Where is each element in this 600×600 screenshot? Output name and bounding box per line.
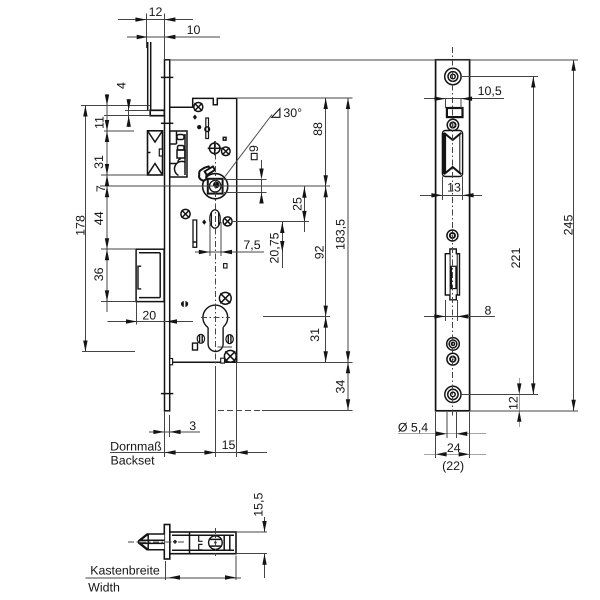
dim 10.5 line y98.7 — [424, 98, 504, 100]
svg-text:7: 7 — [94, 185, 108, 192]
svg-text:88: 88 — [311, 122, 325, 136]
svg-text:178: 178 — [73, 215, 87, 236]
svg-text:34: 34 — [333, 380, 347, 394]
small diamond — [193, 115, 197, 120]
svg-text:4: 4 — [114, 82, 128, 89]
strip foot plate — [150, 110, 164, 115]
deadbolt slot — [445, 249, 459, 300]
cylinder axis row y316.6 — [263, 316, 330, 318]
svg-text:183,5: 183,5 — [333, 219, 347, 250]
faceplate tick marks — [161, 76, 173, 78]
small open rect below-left — [193, 343, 198, 350]
extension line x146.4 — [145, 14, 147, 49]
centerline main vertical axis — [214, 141, 216, 366]
dim 3 line y431.9 — [149, 431, 200, 433]
svg-text:11: 11 — [92, 116, 106, 129]
dornmass dim line y452.5 — [110, 452, 267, 454]
svg-text:20,75: 20,75 — [267, 232, 281, 263]
left chain line x128.7 (4) — [128, 99, 130, 127]
screw bottom right (diag cross) — [224, 350, 236, 362]
arrows chain x325.7 — [324, 98, 328, 109]
screw right of oval (diag cross) — [223, 217, 232, 226]
screw mid (dark ring) — [447, 230, 458, 241]
svg-text:36: 36 — [92, 267, 106, 281]
svg-text:31: 31 — [308, 328, 322, 342]
roller (front view) — [442, 131, 462, 177]
row y110.3 — [125, 109, 150, 111]
roller bracket plate — [447, 108, 463, 117]
left chain line x85.4 (178) — [84, 106, 86, 352]
arrows 178 — [83, 106, 87, 117]
clip brackets — [199, 535, 203, 541]
latch head side view — [139, 534, 165, 550]
arrows dim 7.5 — [199, 250, 210, 254]
case right edge — [236, 98, 238, 362]
dim 8 y316.4 — [424, 315, 495, 317]
svg-text:3: 3 — [189, 419, 196, 433]
sq9 ext rows — [224, 179, 267, 181]
deadbolt front pin — [138, 266, 141, 289]
arrows dia5.4 — [436, 432, 447, 436]
arrows dim 24 — [436, 452, 447, 456]
svg-text:10: 10 — [187, 23, 201, 37]
keyway bottom tick y346.9 — [218, 346, 233, 348]
follower cam blade — [205, 166, 215, 175]
screw hole top (3 circles) — [445, 68, 461, 84]
case top ext row y98 — [237, 97, 353, 99]
divider — [189, 532, 191, 554]
arrows dim 4 — [127, 99, 131, 110]
diamond left of oval — [202, 220, 206, 225]
arrows sq9 — [259, 169, 263, 180]
row y249.2 bolt top ext — [101, 248, 136, 250]
follower nut — [209, 536, 223, 550]
arrows dim 10 — [137, 35, 148, 39]
euro profile cylinder hole — [203, 305, 228, 330]
nut with slot left — [181, 301, 188, 307]
dim 12 right x519.25 — [518, 378, 520, 427]
svg-text:30°: 30° — [283, 106, 302, 120]
arrows dim 8 — [434, 314, 445, 318]
extension line x164.4 above faceplate — [163, 14, 165, 60]
svg-text:9: 9 — [247, 145, 261, 152]
arrows dim 3 — [153, 430, 164, 434]
svg-text:15: 15 — [222, 438, 236, 452]
svg-text:15,5: 15,5 — [252, 493, 266, 517]
screw above cylinder (diag cross) — [219, 292, 231, 304]
row y301 bolt bottom ext — [101, 300, 136, 302]
dim 15.5 line x264.5 — [264, 517, 266, 532]
cylinder screw hole left (hatched oval) — [197, 334, 204, 343]
latch mechanism behind faceplate — [170, 131, 187, 177]
arrows dim 245 — [571, 60, 575, 71]
row y115.7 — [104, 115, 150, 117]
svg-text:Width: Width — [88, 581, 120, 595]
svg-text:20: 20 — [142, 308, 156, 322]
row y351.5 — [82, 351, 135, 353]
latch mid tick — [148, 152, 151, 154]
arrows dim 12 — [135, 17, 146, 21]
svg-text:Backset: Backset — [110, 454, 155, 468]
svg-text:92: 92 — [312, 245, 326, 259]
screw (3 circles) below slot — [447, 338, 460, 351]
upper strip (latch tail, edge view) — [147, 42, 149, 110]
faceplate outline — [436, 60, 470, 411]
centerline bottom view latch — [128, 541, 184, 543]
arrows kastenbreite — [169, 575, 180, 579]
svg-text:8: 8 — [485, 303, 492, 317]
case bottom edge — [171, 361, 237, 363]
roller latch head box — [148, 131, 163, 175]
right view screw rows — [461, 76, 538, 78]
dim 245 x573.6 — [573, 60, 575, 411]
arrows dim 221 — [531, 77, 535, 88]
arrows dornmass row — [165, 450, 176, 454]
leader 30deg — [225, 115, 272, 177]
ext x136.5 below bolt — [136, 302, 138, 325]
slot bar left — [193, 220, 197, 247]
dim line 20 — [107, 321, 193, 323]
row y131 latch top ext — [104, 130, 134, 132]
row y105.5 — [81, 105, 150, 107]
faceplate (main view, edge-on) — [165, 60, 170, 411]
svg-text:(22): (22) — [442, 459, 464, 473]
diamond marker — [173, 540, 177, 544]
screw (diag cross) right of phillips — [222, 147, 231, 156]
follower pupil — [213, 182, 220, 189]
screw top-left (diag cross) — [194, 103, 203, 112]
7.5 ext lines — [209, 222, 211, 256]
centerline right view — [452, 47, 454, 418]
arrows dim 25 — [302, 187, 306, 198]
deadbolt head — [136, 249, 164, 301]
cylinder screw hole right (hatched oval) — [226, 335, 233, 344]
svg-text:245: 245 — [561, 215, 575, 236]
arrows dim 15.5 bottom — [262, 521, 266, 532]
bottom view 15.5 ext rows — [236, 531, 267, 533]
svg-text:25: 25 — [291, 197, 305, 211]
svg-text:44: 44 — [92, 211, 106, 225]
svg-text:12: 12 — [149, 5, 163, 19]
svg-text:12: 12 — [506, 396, 520, 410]
arrows dim 13 — [431, 193, 442, 197]
svg-text:24: 24 — [447, 441, 461, 455]
follower square — [208, 179, 223, 194]
sq9 dim line x261.5 — [261, 160, 263, 169]
svg-text:Kastenbreite: Kastenbreite — [90, 564, 160, 578]
oval fixing hole — [210, 210, 220, 228]
dim 13 y195.3 — [420, 194, 482, 196]
follower outer circle — [203, 174, 228, 199]
svg-text:10,5: 10,5 — [478, 84, 502, 98]
tiny open square bottom — [221, 358, 225, 363]
phillips screw (plus cross) — [208, 141, 222, 155]
top row y59.8 across — [170, 59, 578, 61]
right chain line x325.7 (88/92/31) — [325, 98, 327, 362]
screw hole bottom (3 circles) — [445, 386, 461, 402]
dim 7.5 line y252 — [195, 251, 264, 253]
latch pin right mid — [159, 149, 162, 156]
arrows dim 20 — [126, 319, 137, 323]
small filled square — [223, 137, 227, 141]
arrows dim 10.5 — [435, 97, 446, 101]
left chain line x107 — [106, 94, 108, 312]
kastenbreite dim line y577.5 — [86, 577, 241, 579]
svg-text:Ø 5,4: Ø 5,4 — [398, 420, 428, 434]
dim 221 x533.3 — [532, 77, 534, 395]
dim 24 y454.25 — [424, 453, 486, 455]
arrows chain x348 — [346, 98, 350, 109]
dia 5.4 dim y433.75 — [398, 433, 486, 435]
angle symbol — [272, 109, 280, 118]
case bottom ext row y362.3 — [237, 361, 353, 363]
follower cam body — [199, 166, 211, 180]
roller latch bottom chevron — [148, 164, 162, 175]
svg-text:13: 13 — [447, 181, 461, 195]
svg-text:7,5: 7,5 — [243, 238, 260, 252]
ext below faceplate x164.7 — [164, 411, 166, 457]
tiny square mid — [224, 264, 227, 268]
row y186.2 follower axis — [100, 185, 330, 187]
case bottom left tab — [170, 359, 173, 365]
right chain line x348 (183.5/34) — [347, 98, 349, 410]
fixing screw row y221.5 — [232, 221, 309, 223]
case right edge ext below x236.7 — [236, 362, 238, 457]
screw left of oval (diag cross) — [181, 209, 190, 218]
centerline bottom view nut — [214, 528, 216, 556]
dim 20.75 line x282.3 — [281, 222, 283, 268]
roller latch top chevron — [148, 132, 162, 143]
case inner walls — [172, 534, 234, 536]
right view bottom row y410.8 — [470, 410, 578, 412]
dim line 10 top — [127, 36, 220, 38]
case top edge — [170, 98, 237, 107]
inner vertical right — [223, 535, 225, 550]
arrows dim 20.75 — [280, 222, 284, 233]
follower inner circle — [209, 180, 221, 192]
centerline cylinder horizontal — [201, 317, 230, 319]
axis ext below x215.4 — [214, 366, 216, 457]
bottom view ext verticals — [165, 561, 167, 580]
dim 25 line x304.4 — [303, 187, 305, 232]
faceplate bar — [164, 525, 170, 560]
small dot — [197, 125, 201, 129]
dim line 12 top — [118, 19, 193, 21]
svg-text:221: 221 — [509, 248, 523, 269]
narrow plate with hole — [206, 118, 209, 139]
faceplate bottom row y410.3 — [218, 409, 262, 411]
arrows dim 12 right — [517, 383, 521, 394]
svg-text:Dornmaß: Dornmaß — [110, 439, 162, 453]
row y175 latch bottom ext — [101, 174, 148, 176]
case outline — [170, 532, 236, 554]
svg-text:31: 31 — [92, 155, 106, 169]
screw below bracket — [447, 119, 458, 130]
screw (dark ring) — [447, 353, 459, 365]
arrows chain x107 — [105, 95, 109, 106]
